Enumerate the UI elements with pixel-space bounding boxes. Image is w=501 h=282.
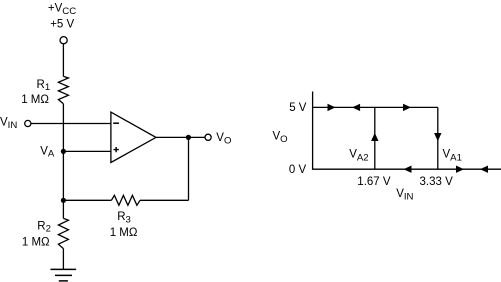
svg-text:+5 V: +5 V [50,19,74,31]
svg-text:R1: R1 [37,79,51,93]
svg-text:VIN: VIN [0,117,17,131]
svg-text:1 MΩ: 1 MΩ [110,227,138,239]
svg-text:VA2: VA2 [349,149,368,164]
svg-text:1.67 V: 1.67 V [357,176,391,188]
svg-text:VO: VO [273,131,288,145]
svg-text:+VCC: +VCC [48,3,76,17]
svg-text:VO: VO [216,132,231,147]
svg-text:1 MΩ: 1 MΩ [22,236,50,248]
svg-text:R3: R3 [117,211,131,225]
svg-text:3.33 V: 3.33 V [420,176,454,188]
svg-text:0 V: 0 V [289,164,307,176]
svg-text:VA: VA [40,145,55,159]
svg-text:R2: R2 [37,220,51,234]
svg-text:1 MΩ: 1 MΩ [21,94,49,106]
svg-text:VA1: VA1 [443,149,462,164]
svg-text:VIN: VIN [396,188,413,202]
svg-text:5 V: 5 V [289,102,307,114]
